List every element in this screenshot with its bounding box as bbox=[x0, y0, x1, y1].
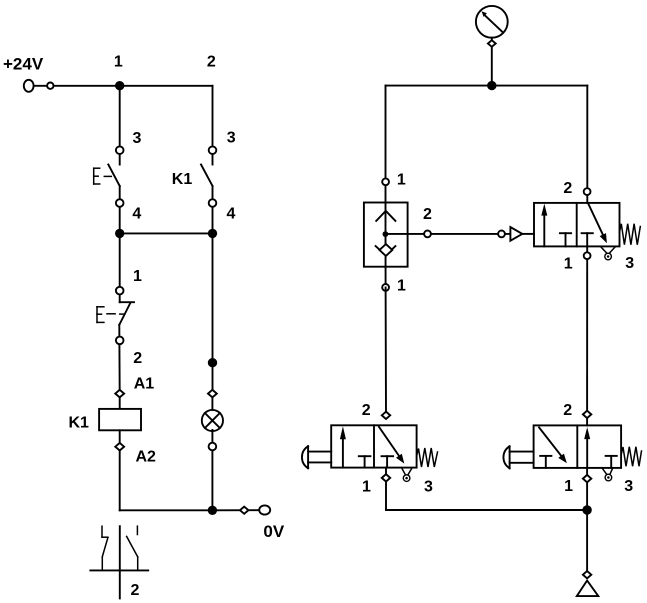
node junction gauge on rail bbox=[487, 81, 496, 90]
svg-text:0V: 0V bbox=[263, 522, 284, 541]
pin 2 bottom-right valve bbox=[583, 411, 591, 418]
pressure gauge bbox=[476, 6, 508, 38]
pin on 0V wire bbox=[240, 507, 248, 514]
wire below break contact bbox=[118, 325, 120, 394]
pin on +24V wire bbox=[47, 83, 53, 89]
svg-text:2: 2 bbox=[133, 350, 142, 367]
contact K1 blade bbox=[201, 165, 213, 187]
svg-text:2: 2 bbox=[362, 402, 371, 419]
valve V1 divider bbox=[576, 203, 578, 247]
wire 0V stub bbox=[212, 509, 259, 511]
bottom-left valve pushbutton bbox=[302, 446, 331, 468]
wire gauge to rail bbox=[491, 38, 493, 86]
svg-text:2: 2 bbox=[563, 180, 572, 197]
wire col1 down to pin 3 bbox=[119, 86, 121, 165]
check valve seat bbox=[376, 246, 396, 255]
svg-text:1: 1 bbox=[397, 278, 406, 295]
svg-text:1: 1 bbox=[564, 478, 573, 495]
bottom-right valve body bbox=[534, 425, 622, 468]
valve V1 exhaust seat bbox=[600, 246, 615, 252]
bottom-left valve exhaust port 3 bbox=[403, 475, 410, 482]
pin supply bbox=[583, 571, 591, 578]
bottom-left valve divider bbox=[373, 425, 375, 467]
bottom-left valve body bbox=[331, 425, 416, 467]
compressed air supply triangle bbox=[577, 581, 599, 597]
pilot triangle bbox=[510, 227, 522, 241]
svg-text:3: 3 bbox=[133, 130, 142, 147]
pin 2 contact E break bbox=[116, 337, 124, 345]
svg-text:3: 3 bbox=[624, 478, 633, 495]
pin gauge bbox=[488, 40, 496, 47]
pin 1 contact E break bbox=[116, 287, 124, 295]
check valve ball diamond bbox=[380, 244, 393, 256]
contact usage indicator base line bbox=[90, 569, 148, 571]
bottom-left valve exhaust seat bbox=[402, 468, 413, 475]
pin 2 flow control bbox=[424, 231, 431, 238]
wire +24V rail bbox=[33, 85, 213, 87]
wire left branch down bbox=[385, 86, 387, 232]
relay coil K1 bbox=[99, 409, 141, 430]
wire below contact K1 bbox=[212, 186, 214, 233]
svg-text:4: 4 bbox=[226, 206, 235, 223]
wire port1 bottom-left down bbox=[385, 468, 387, 510]
svg-text:A1: A1 bbox=[134, 376, 155, 393]
svg-text:A2: A2 bbox=[136, 449, 157, 466]
wire port2 bottom-right up bbox=[586, 414, 588, 425]
svg-text:3: 3 bbox=[625, 255, 634, 272]
bottom-left valve left blocked port T bbox=[359, 456, 371, 467]
bottom-right valve exhaust seat bbox=[602, 468, 613, 474]
pin 4 contact K1 bbox=[209, 199, 217, 207]
node junction bottom rail bbox=[208, 506, 217, 515]
svg-text:1: 1 bbox=[114, 54, 123, 71]
node junction row 233 left bbox=[115, 229, 124, 238]
wire below switch E bbox=[119, 186, 121, 233]
contact usage indicator vertical line bbox=[119, 526, 121, 598]
bottom-right valve left diagonal arrow bbox=[539, 428, 567, 464]
svg-text:K1: K1 bbox=[69, 415, 90, 432]
wire bottom rail left bbox=[120, 509, 213, 511]
pin 3 contact K1 bbox=[209, 146, 217, 154]
node 1 junction bbox=[115, 81, 124, 90]
throttle arrow chevron bbox=[376, 211, 395, 221]
pin A1 relay bbox=[115, 390, 124, 398]
valve V1 left arrow up bbox=[541, 204, 547, 247]
bottom-right valve right arrow up bbox=[584, 427, 590, 468]
pin 1 valve V1 bbox=[584, 252, 591, 259]
wire col2 down from rail bbox=[212, 86, 214, 165]
wire pin to lamp bbox=[211, 397, 213, 411]
wire pilot to valve bbox=[522, 233, 534, 235]
svg-text:1: 1 bbox=[564, 256, 573, 273]
pin lamp top bbox=[208, 390, 217, 398]
wire to bottom-left valve bbox=[385, 287, 387, 415]
pushbutton E actuator symbol lower bbox=[97, 307, 123, 323]
bottom-left valve right blocked port T bbox=[382, 456, 394, 467]
node dot inside flow control bbox=[383, 231, 389, 237]
wire col2 to lamp bbox=[212, 233, 214, 393]
svg-text:2: 2 bbox=[131, 582, 140, 599]
wire lamp to junction bbox=[211, 430, 213, 510]
pneumatic bottom rail bbox=[386, 509, 587, 511]
indicator break contact bbox=[102, 526, 108, 570]
svg-text:2: 2 bbox=[207, 54, 216, 71]
wire col1 to NC contact bbox=[119, 233, 121, 302]
bottom-right valve left blocked port T bbox=[540, 456, 551, 468]
svg-text:1: 1 bbox=[397, 172, 406, 189]
pin 1 bottom-left valve bbox=[382, 474, 390, 481]
pneumatic top rail bbox=[386, 85, 588, 87]
junction dot col2 bbox=[208, 358, 217, 367]
bottom-right valve exhaust port 3 bbox=[605, 474, 612, 481]
pin 1 flow control bottom bbox=[382, 284, 389, 291]
pin 1 bottom-right valve bbox=[583, 475, 591, 482]
svg-text:+24V: +24V bbox=[3, 55, 44, 74]
svg-text:2: 2 bbox=[563, 402, 572, 419]
node junction row 233 right bbox=[208, 229, 217, 238]
wire row 233 horizontal bbox=[120, 232, 213, 234]
bottom-right valve divider bbox=[576, 425, 578, 468]
svg-text:4: 4 bbox=[132, 206, 141, 223]
bottom-right valve right blocked port T bbox=[606, 456, 617, 468]
svg-text:1: 1 bbox=[133, 268, 142, 285]
wire V1 port1 down bbox=[586, 246, 588, 414]
wire flow control down bbox=[385, 234, 387, 287]
svg-text:3: 3 bbox=[227, 129, 236, 146]
indicator make contact bbox=[127, 526, 138, 570]
bottom-left valve left arrow up bbox=[340, 426, 346, 467]
valve V1 body bbox=[534, 203, 620, 247]
pin A2 relay bbox=[115, 443, 124, 451]
pin 2 bottom-left valve bbox=[382, 412, 390, 419]
svg-text:3: 3 bbox=[424, 478, 433, 495]
pin 4 switch E bbox=[116, 199, 124, 207]
indicator lamp bbox=[202, 410, 223, 431]
wire V1 port2 up to rail bbox=[586, 86, 588, 203]
valve V1 right blocked port T bbox=[582, 233, 593, 246]
bottom-right valve spring bbox=[621, 447, 641, 467]
valve V1 spring bbox=[620, 224, 641, 245]
node junction bottom rail pneumatic bbox=[582, 505, 591, 514]
switch E make contact blade bbox=[108, 165, 119, 187]
bottom-left valve right diagonal arrow bbox=[379, 427, 404, 464]
valve V1 exhaust port 3 bbox=[605, 253, 612, 260]
pin 3 switch E bbox=[116, 146, 124, 154]
flow control valve body bbox=[364, 203, 408, 267]
wire pin A1 to coil bbox=[119, 397, 121, 409]
bottom-left valve spring bbox=[417, 448, 438, 467]
wire coil to pin A2 bbox=[119, 430, 121, 510]
wire flow control port 2 to pilot bbox=[385, 233, 510, 235]
pin lamp bottom bbox=[209, 443, 217, 451]
svg-text:2: 2 bbox=[423, 206, 432, 223]
pin 2 valve V1 bbox=[584, 188, 591, 195]
svg-text:1: 1 bbox=[362, 478, 371, 495]
bottom-right valve pushbutton bbox=[503, 446, 533, 468]
valve V1 left blocked port T bbox=[560, 233, 571, 246]
break contact E blade bbox=[119, 303, 130, 325]
terminal 0V bbox=[259, 505, 270, 514]
break contact E bar bbox=[120, 301, 134, 303]
wire port1 bottom-right down bbox=[586, 468, 588, 575]
pushbutton E actuator symbol bbox=[94, 168, 112, 184]
terminal +24V bbox=[24, 80, 34, 92]
pin pilot valve V1 bbox=[498, 231, 505, 238]
pin 1 flow control top bbox=[382, 178, 389, 185]
valve V1 right diagonal arrow bbox=[588, 203, 607, 243]
svg-text:K1: K1 bbox=[172, 171, 193, 188]
